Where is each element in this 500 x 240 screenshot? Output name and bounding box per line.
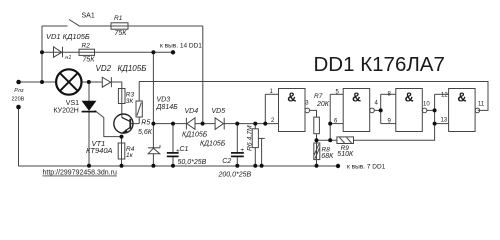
svg-text:Д814Б: Д814Б — [156, 104, 179, 111]
gate3 input pins — [380, 94, 382, 123]
svg-text:SA1: SA1 — [82, 13, 95, 20]
svg-text:&: & — [405, 91, 414, 105]
node left vertical — [41, 26, 43, 82]
svg-text:VD2: VD2 — [96, 64, 112, 73]
thyristor VS1 gate wire — [95, 111, 122, 137]
svg-text:Рлз: Рлз — [14, 88, 24, 94]
resistor R5 — [136, 101, 142, 117]
svg-text:R2: R2 — [82, 42, 91, 49]
NAND gate DD1.1 — [279, 89, 306, 132]
trimmer R6 leads — [254, 124, 256, 129]
wire left terminal down — [18, 107, 20, 166]
wire gate1 out to R7 — [310, 110, 317, 117]
resistor R4 — [118, 143, 125, 159]
transistor VT1 emitter junction to R4 — [121, 137, 123, 166]
svg-text:68К: 68К — [321, 153, 334, 160]
diode VD5 — [215, 118, 223, 130]
gate2 input pins — [329, 94, 331, 140]
svg-text:75К: 75К — [83, 57, 96, 64]
svg-text:КД105Б: КД105Б — [182, 132, 208, 139]
NAND gate DD1.3 — [396, 89, 423, 132]
wire top rail right corner down — [202, 26, 204, 124]
svg-text:&: & — [287, 91, 296, 105]
diode VD2 — [102, 77, 110, 87]
lamp H1 — [56, 69, 81, 94]
wire gate3 out — [427, 109, 435, 111]
svg-text:50,0*25В: 50,0*25В — [178, 159, 207, 166]
thyristor VS1 cathode wire — [88, 112, 90, 166]
svg-text:5,6К: 5,6К — [138, 129, 153, 136]
wire top rail after switch — [79, 25, 203, 27]
svg-text:510К: 510К — [337, 151, 354, 158]
svg-text:VS1: VS1 — [66, 100, 79, 107]
transistor VT1 base lead to R5 — [130, 123, 139, 125]
pin numbers — [270, 89, 485, 125]
trimmer R8 — [314, 143, 320, 160]
svg-text:220В: 220В — [12, 96, 25, 102]
switch SA1 lever — [69, 20, 79, 26]
thyristor VS1 anode wire — [88, 82, 90, 101]
svg-text:C2: C2 — [222, 158, 231, 165]
wire VD2 to R3 — [111, 82, 121, 89]
svg-text:1к: 1к — [126, 152, 134, 159]
svg-text:н1: н1 — [65, 55, 71, 61]
capacitor C2 leads — [236, 124, 238, 153]
resistor R3 — [121, 89, 123, 118]
trimmer R6 — [252, 129, 258, 148]
NAND gate DD1.2 — [343, 89, 370, 132]
wire R9 right to gate4 inputs — [354, 94, 435, 140]
svg-text:R5: R5 — [141, 120, 150, 127]
capacitor C2 plates — [231, 153, 244, 157]
trimmer R9 — [337, 137, 354, 144]
svg-text:&: & — [352, 91, 361, 105]
gate4 input pins — [435, 93, 449, 95]
svg-text:+: + — [240, 147, 244, 154]
svg-text:VD1 КД105Б: VD1 КД105Б — [46, 32, 90, 41]
svg-text:КД105Б: КД105Б — [118, 64, 147, 73]
svg-text:к выв. 7 DD1: к выв. 7 DD1 — [347, 164, 386, 171]
zener VD3 — [148, 147, 160, 149]
svg-text:&: & — [457, 91, 466, 105]
svg-text:C1: C1 — [180, 146, 189, 153]
transistor VT1 — [114, 114, 133, 133]
diode VD1 — [54, 47, 62, 57]
wire top rail left segment — [42, 25, 68, 27]
svg-text:R7: R7 — [314, 93, 323, 100]
svg-text:КТ940А: КТ940А — [86, 146, 113, 155]
svg-text:3К: 3К — [126, 98, 135, 105]
resistor R5 leads — [138, 117, 140, 124]
trimmer R6 wiper — [258, 137, 264, 139]
transistor VT1 emitter arrow — [122, 129, 128, 133]
svg-text:200,0*25В: 200,0*25В — [218, 172, 252, 179]
svg-text:13: 13 — [441, 118, 448, 124]
svg-text:20К: 20К — [316, 101, 330, 108]
wire bottom rail — [19, 165, 339, 167]
svg-text:VD3: VD3 — [157, 97, 171, 104]
thyristor VS1 body — [82, 101, 97, 112]
node VDD vertical — [152, 52, 154, 148]
resistor R1 — [111, 23, 128, 29]
svg-text:DD1 К176ЛА7: DD1 К176ЛА7 — [314, 53, 445, 76]
wire feedback rail — [139, 82, 488, 111]
gate1 input pins — [264, 94, 266, 123]
capacitor C1 plates — [167, 153, 179, 157]
wire R7 bottom to R9 — [317, 139, 337, 141]
svg-text:КД105Б: КД105Б — [200, 141, 226, 148]
svg-text:VD5: VD5 — [212, 108, 226, 115]
svg-text:75К: 75К — [115, 30, 128, 37]
svg-text:R6 4,7М: R6 4,7М — [247, 125, 254, 151]
wire gate2 out — [374, 109, 380, 111]
svg-text:http://299792458.3dn.ru: http://299792458.3dn.ru — [43, 170, 117, 177]
wire middle rail — [153, 123, 186, 125]
svg-text:10: 10 — [423, 101, 430, 107]
resistor R7 — [314, 117, 320, 134]
wire VD1 line — [42, 51, 173, 53]
diode VD4 — [185, 118, 187, 130]
svg-text:R1: R1 — [114, 15, 123, 22]
svg-text:VD4: VD4 — [185, 108, 199, 115]
resistor R2 — [79, 49, 95, 55]
NAND gate DD1.4 — [449, 89, 476, 132]
capacitor C1 leads — [172, 124, 174, 153]
svg-text:КУ202Н: КУ202Н — [54, 108, 79, 115]
svg-text:12: 12 — [441, 93, 448, 99]
svg-text:11: 11 — [478, 102, 485, 108]
gate ampersands — [287, 91, 466, 105]
svg-text:к выв. 14 DD1: к выв. 14 DD1 — [160, 43, 202, 50]
wire lamp line — [19, 81, 57, 83]
